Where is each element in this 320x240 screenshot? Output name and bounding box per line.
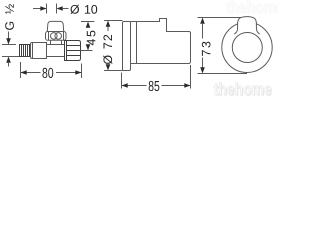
dim 73 top arrow	[200, 18, 205, 24]
thread pipe end	[20, 45, 30, 57]
dim 73 bottom ref line	[198, 73, 248, 75]
dim 73 top ref line	[198, 17, 244, 19]
dim 85 right arrow	[184, 83, 190, 87]
knurl circle right	[55, 33, 62, 40]
dim 80 right arrow	[75, 70, 81, 74]
dim 80 left arrow	[21, 70, 27, 74]
dim O10 ext line right	[56, 4, 58, 14]
outlet nut	[65, 41, 81, 61]
valve stem left wall	[50, 41, 52, 45]
label 85	[149, 81, 160, 91]
nut rib line 2	[67, 50, 81, 52]
G1/2 dim top arrow	[8, 32, 10, 40]
centerline extension	[81, 50, 93, 52]
handle knurl ring	[46, 32, 67, 41]
label O 10	[70, 5, 79, 14]
cover dome inner circle front view	[232, 33, 262, 63]
watermark thehome	[214, 83, 271, 96]
dim 85 left arrow	[122, 83, 128, 87]
valve knob front view	[234, 17, 259, 34]
dim O10 left arrow	[40, 6, 46, 10]
knurl circle left	[51, 33, 58, 40]
thread hatch lines	[22, 45, 28, 57]
dim 73 line upper	[202, 23, 204, 39]
valve T body	[47, 45, 65, 57]
valve body cylinder	[31, 43, 47, 59]
dim O10 line left	[33, 8, 47, 10]
G1/2 dim bottom ref line	[2, 56, 19, 58]
cover ring edge	[136, 22, 138, 64]
G1/2 dim top ref line	[2, 44, 16, 46]
dim O72 bottom arrow	[106, 64, 111, 70]
label 80	[42, 68, 53, 78]
dim 85 line left	[122, 85, 147, 87]
dim 80 line right	[56, 72, 82, 74]
valve stem right wall	[61, 41, 63, 45]
dim 85 ext line left	[121, 73, 123, 89]
label G 1/2	[5, 4, 14, 30]
label 45	[87, 31, 96, 46]
dim O72 bottom ref line	[104, 70, 123, 72]
dim O72 top ref line	[104, 20, 123, 22]
dim 85 ext line right	[190, 65, 192, 89]
nut rib line 1	[67, 45, 81, 47]
dim 85 line right	[162, 85, 191, 87]
label 73	[202, 42, 211, 56]
watermark thehome shadow	[215, 83, 272, 96]
dim O45 bottom arrow	[86, 44, 91, 50]
handle cap	[47, 21, 63, 31]
wall rosette side view	[123, 22, 131, 71]
dim O45 top arrow	[86, 22, 91, 28]
escutcheon outer circle front view	[222, 22, 272, 72]
dim O10 line right	[63, 8, 69, 10]
nut rib line 3	[67, 55, 81, 57]
G1/2 dim bottom arrow	[6, 57, 11, 63]
watermark thehome top-right (very faint)	[226, 1, 283, 14]
cover profile outline	[131, 19, 191, 64]
nut flange line	[66, 41, 68, 61]
dim 80 ext line left	[20, 62, 22, 78]
dim O72 top arrow	[106, 21, 111, 27]
dim O10 ext line left	[46, 4, 48, 14]
dim 80 ext line right	[81, 64, 83, 79]
label O 72	[103, 35, 112, 64]
dim 80 line left	[21, 72, 41, 74]
dim 73 line lower	[202, 58, 204, 69]
knurl ring left notch	[48, 32, 50, 41]
dim O10 right arrow	[57, 6, 63, 10]
cylinder flange edge	[32, 43, 34, 59]
dim 73 bottom arrow	[200, 67, 205, 73]
knurl ring right notch	[63, 32, 65, 41]
dim O45 top ref line	[81, 21, 95, 23]
